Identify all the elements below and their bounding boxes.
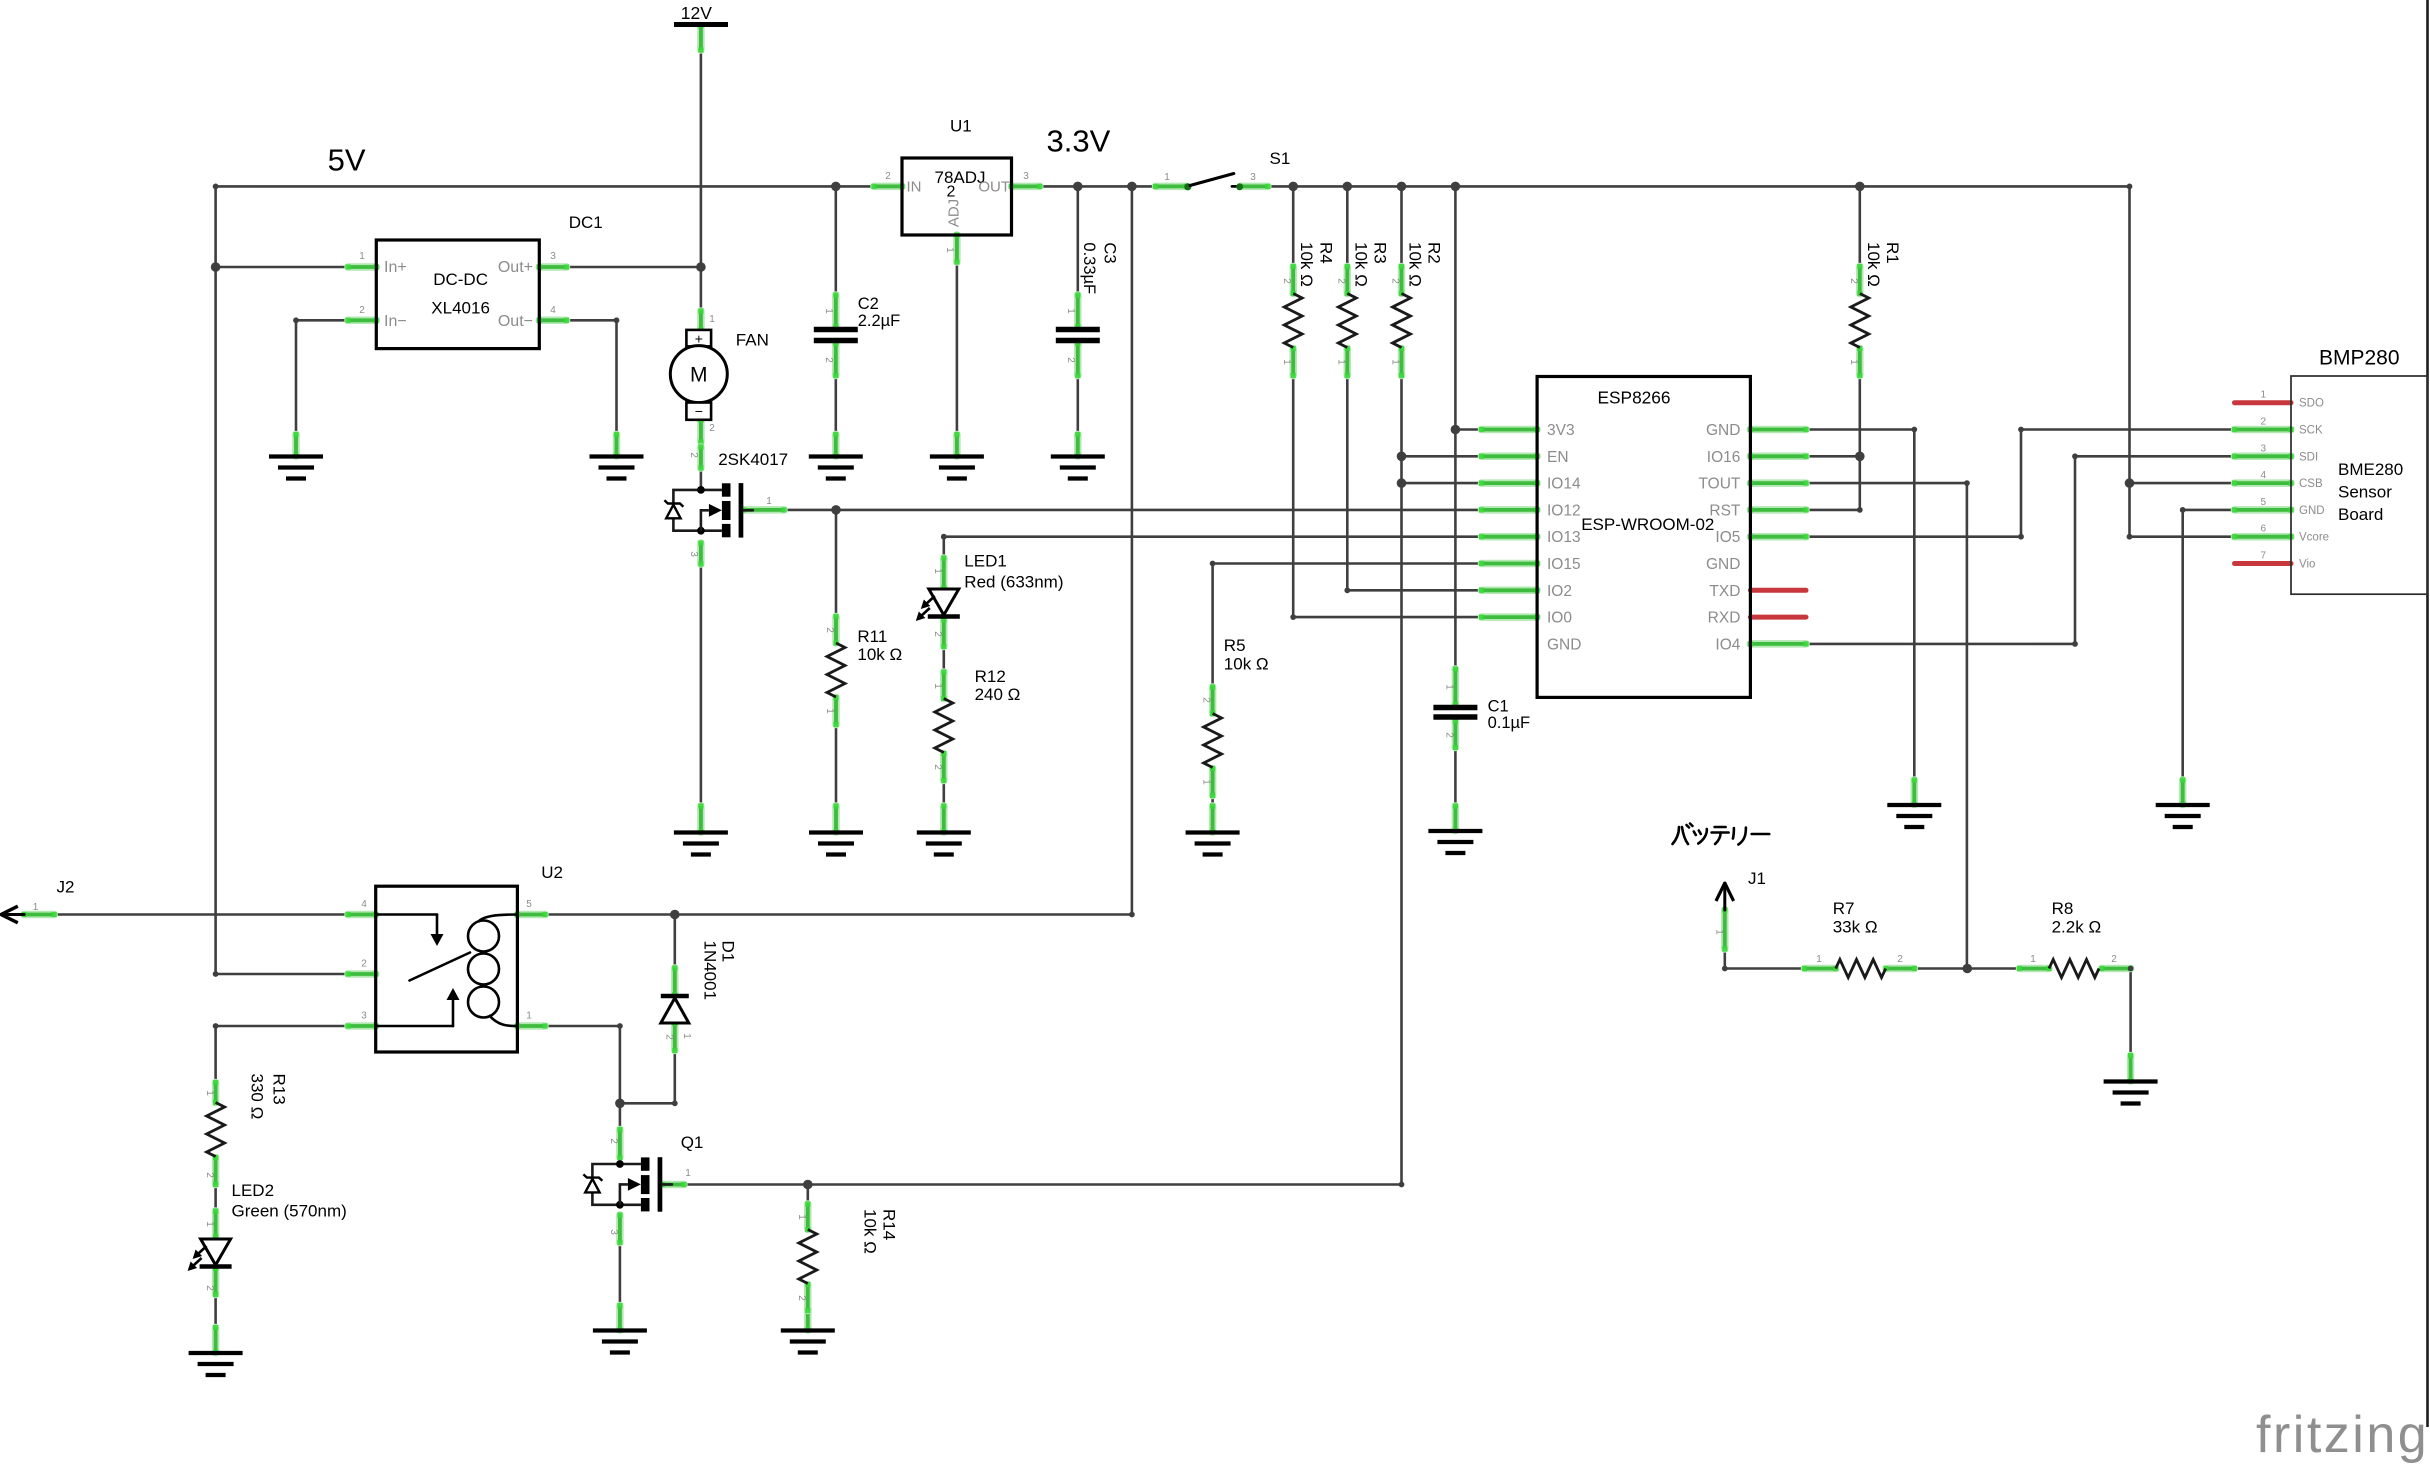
svg-text:IO5: IO5 <box>1715 529 1740 546</box>
svg-text:GND: GND <box>2299 505 2325 517</box>
svg-text:3V3: 3V3 <box>1547 422 1575 439</box>
svg-text:ESP8266: ESP8266 <box>1597 388 1670 408</box>
svg-text:RXD: RXD <box>1708 610 1741 627</box>
svg-text:SCK: SCK <box>2299 425 2323 437</box>
svg-text:5: 5 <box>2260 497 2266 508</box>
svg-text:330 Ω: 330 Ω <box>248 1074 267 1120</box>
svg-text:2: 2 <box>608 1138 619 1144</box>
svg-text:R3: R3 <box>1370 242 1389 264</box>
svg-text:2: 2 <box>824 627 835 633</box>
svg-text:R11: R11 <box>857 627 887 646</box>
svg-text:1N4001: 1N4001 <box>700 941 719 1001</box>
svg-text:BMP280: BMP280 <box>2319 346 2400 369</box>
svg-text:IO14: IO14 <box>1547 476 1581 493</box>
svg-text:R4: R4 <box>1316 242 1335 264</box>
svg-text:1: 1 <box>526 1011 532 1022</box>
svg-text:1: 1 <box>359 251 365 262</box>
svg-text:U1: U1 <box>950 117 972 136</box>
svg-text:4: 4 <box>361 899 367 910</box>
svg-text:IO15: IO15 <box>1547 556 1581 573</box>
svg-text:IO0: IO0 <box>1547 610 1572 627</box>
svg-text:5: 5 <box>526 899 532 910</box>
svg-text:IO13: IO13 <box>1547 529 1581 546</box>
svg-text:1: 1 <box>1065 308 1076 314</box>
svg-text:D1: D1 <box>719 941 738 963</box>
svg-text:3: 3 <box>688 551 699 557</box>
svg-text:1: 1 <box>1848 359 1859 365</box>
svg-text:2.2µF: 2.2µF <box>858 312 901 330</box>
svg-text:10k Ω: 10k Ω <box>1224 655 1269 674</box>
svg-text:3: 3 <box>1023 171 1029 182</box>
svg-text:6: 6 <box>2260 524 2266 535</box>
svg-text:LED2: LED2 <box>232 1181 275 1200</box>
svg-text:2: 2 <box>361 959 367 970</box>
svg-text:M: M <box>690 364 708 387</box>
svg-text:4: 4 <box>550 305 556 316</box>
svg-text:2: 2 <box>1897 954 1903 965</box>
svg-text:1: 1 <box>1164 172 1170 183</box>
svg-text:1: 1 <box>823 308 834 314</box>
svg-text:2: 2 <box>709 423 715 434</box>
svg-text:−: − <box>695 403 703 419</box>
svg-text:1: 1 <box>681 1033 692 1039</box>
svg-text:1: 1 <box>33 902 39 913</box>
svg-text:1: 1 <box>685 1168 691 1179</box>
svg-text:1: 1 <box>824 708 835 714</box>
svg-text:1: 1 <box>2260 390 2266 401</box>
svg-text:Q1: Q1 <box>681 1133 704 1152</box>
svg-text:3: 3 <box>361 1011 367 1022</box>
svg-text:2: 2 <box>1848 278 1859 284</box>
svg-text:33k Ω: 33k Ω <box>1833 918 1878 937</box>
svg-text:OUT: OUT <box>978 179 1010 196</box>
svg-text:R1: R1 <box>1883 242 1902 264</box>
svg-text:Vio: Vio <box>2299 559 2315 571</box>
svg-text:R8: R8 <box>2052 899 2074 918</box>
svg-text:3.3V: 3.3V <box>1047 123 1111 158</box>
svg-text:R12: R12 <box>975 667 1006 686</box>
svg-text:fritzing: fritzing <box>2256 1406 2429 1464</box>
svg-text:R7: R7 <box>1833 899 1855 918</box>
svg-text:1: 1 <box>204 1221 215 1227</box>
svg-text:2: 2 <box>885 171 891 182</box>
svg-text:ESP-WROOM-02: ESP-WROOM-02 <box>1581 515 1714 534</box>
svg-text:4: 4 <box>2260 470 2266 481</box>
svg-text:10k Ω: 10k Ω <box>1351 242 1370 287</box>
svg-text:ADJ: ADJ <box>946 199 963 227</box>
svg-text:2: 2 <box>932 631 943 637</box>
svg-text:3: 3 <box>608 1229 619 1235</box>
svg-text:C1: C1 <box>1488 698 1509 716</box>
svg-text:2: 2 <box>1444 732 1455 738</box>
svg-text:10k Ω: 10k Ω <box>1406 242 1425 287</box>
svg-text:1: 1 <box>1390 359 1401 365</box>
svg-text:S1: S1 <box>1270 149 1291 168</box>
svg-text:CSB: CSB <box>2299 478 2323 490</box>
svg-text:1: 1 <box>1281 359 1292 365</box>
svg-text:12V: 12V <box>681 3 712 23</box>
svg-text:7: 7 <box>2260 551 2266 562</box>
svg-text:1: 1 <box>1201 779 1212 785</box>
svg-text:Sensor: Sensor <box>2338 483 2392 502</box>
svg-text:1: 1 <box>944 247 955 253</box>
svg-text:IN: IN <box>907 179 922 196</box>
svg-text:2: 2 <box>1335 278 1346 284</box>
svg-text:R5: R5 <box>1224 636 1246 655</box>
svg-text:J1: J1 <box>1748 869 1766 888</box>
svg-text:2: 2 <box>1281 278 1292 284</box>
svg-text:1: 1 <box>204 1090 215 1096</box>
svg-text:TXD: TXD <box>1709 583 1740 600</box>
svg-text:FAN: FAN <box>736 331 769 350</box>
svg-text:DC1: DC1 <box>569 213 603 232</box>
svg-text:1: 1 <box>766 496 772 507</box>
svg-text:Board: Board <box>2338 505 2383 524</box>
svg-text:R14: R14 <box>879 1209 898 1240</box>
svg-text:1: 1 <box>796 1214 807 1220</box>
svg-text:10k Ω: 10k Ω <box>861 1209 880 1254</box>
svg-text:+: + <box>695 331 703 347</box>
svg-text:3: 3 <box>550 251 556 262</box>
svg-text:1: 1 <box>932 683 943 689</box>
svg-text:2: 2 <box>2111 954 2117 965</box>
svg-text:Out−: Out− <box>498 313 533 330</box>
svg-text:3: 3 <box>1250 172 1256 183</box>
svg-text:2: 2 <box>359 305 365 316</box>
svg-text:J2: J2 <box>57 878 75 897</box>
svg-text:2.2k Ω: 2.2k Ω <box>2052 918 2102 937</box>
svg-text:R2: R2 <box>1425 242 1444 264</box>
svg-text:C2: C2 <box>858 295 879 313</box>
svg-text:RST: RST <box>1709 502 1741 519</box>
svg-text:240 Ω: 240 Ω <box>975 685 1021 704</box>
svg-text:1: 1 <box>709 314 715 325</box>
svg-text:1: 1 <box>1714 929 1725 935</box>
svg-text:GND: GND <box>1547 636 1581 653</box>
svg-text:2: 2 <box>688 452 699 458</box>
svg-text:In−: In− <box>384 313 407 330</box>
svg-text:2: 2 <box>796 1295 807 1301</box>
svg-text:Red (633nm): Red (633nm) <box>964 573 1063 592</box>
svg-text:10k Ω: 10k Ω <box>1864 242 1883 287</box>
svg-text:0.33µF: 0.33µF <box>1080 242 1098 294</box>
svg-text:In+: In+ <box>384 259 407 276</box>
svg-text:C3: C3 <box>1101 242 1119 263</box>
svg-text:LED1: LED1 <box>964 552 1007 571</box>
svg-text:5V: 5V <box>328 143 366 178</box>
svg-text:1: 1 <box>1444 684 1455 690</box>
svg-text:IO2: IO2 <box>1547 583 1572 600</box>
svg-text:R13: R13 <box>270 1074 289 1105</box>
svg-text:IO16: IO16 <box>1707 449 1741 466</box>
svg-text:2SK4017: 2SK4017 <box>718 450 788 469</box>
svg-text:GND: GND <box>1706 556 1740 573</box>
svg-text:SDO: SDO <box>2299 398 2324 410</box>
svg-text:2: 2 <box>823 357 834 363</box>
svg-text:Green (570nm): Green (570nm) <box>232 1202 347 1221</box>
svg-text:10k Ω: 10k Ω <box>1297 242 1316 287</box>
svg-text:Vcore: Vcore <box>2299 532 2329 544</box>
svg-text:0.1µF: 0.1µF <box>1488 714 1531 732</box>
svg-text:IO12: IO12 <box>1547 502 1581 519</box>
svg-text:1: 1 <box>2030 954 2036 965</box>
svg-text:2: 2 <box>932 764 943 770</box>
svg-text:TOUT: TOUT <box>1698 476 1740 493</box>
svg-text:1: 1 <box>1816 954 1822 965</box>
svg-text:2: 2 <box>947 184 956 201</box>
svg-text:2: 2 <box>1065 357 1076 363</box>
svg-text:SDI: SDI <box>2299 451 2318 463</box>
svg-text:Out+: Out+ <box>498 259 533 276</box>
svg-text:GND: GND <box>1706 422 1740 439</box>
svg-text:2: 2 <box>1201 697 1212 703</box>
svg-text:1: 1 <box>1335 359 1346 365</box>
svg-text:1: 1 <box>932 568 943 574</box>
svg-text:EN: EN <box>1547 449 1569 466</box>
svg-text:2: 2 <box>2260 417 2266 428</box>
svg-text:10k Ω: 10k Ω <box>857 645 902 664</box>
svg-text:2: 2 <box>664 1034 675 1040</box>
svg-text:2: 2 <box>204 1285 215 1291</box>
svg-text:3: 3 <box>2260 443 2266 454</box>
svg-text:IO4: IO4 <box>1715 636 1740 653</box>
svg-text:BME280: BME280 <box>2338 460 2403 479</box>
svg-text:U2: U2 <box>541 863 563 882</box>
svg-text:DC-DC: DC-DC <box>433 270 488 289</box>
svg-text:2: 2 <box>204 1172 215 1178</box>
svg-text:2: 2 <box>1390 278 1401 284</box>
svg-text:XL4016: XL4016 <box>431 299 490 318</box>
